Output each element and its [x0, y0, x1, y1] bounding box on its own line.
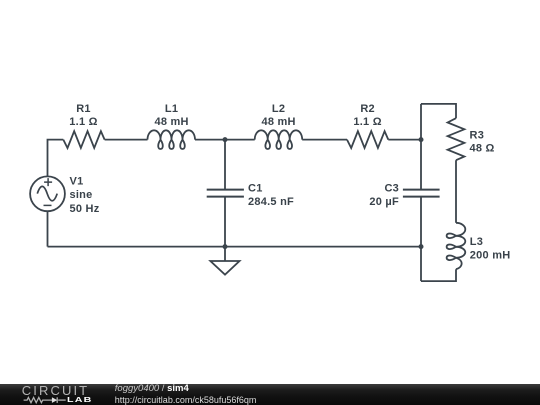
resistor R1: [63, 131, 104, 148]
wire R1 to L1: [105, 139, 148, 141]
node B junction dot: [419, 137, 424, 142]
wire C1 to bottom rail: [224, 197, 226, 247]
wire L1 to L2 through node A: [195, 139, 255, 141]
voltage source V1: [30, 176, 65, 211]
label R2: [353, 103, 381, 128]
bottom rail wire: [48, 246, 422, 248]
label V1: [70, 176, 100, 215]
label L2: [261, 103, 295, 128]
wire V1 top to R1: [48, 140, 64, 177]
label L3: [470, 236, 511, 261]
wire right rail top (node B up to C3): [420, 104, 422, 190]
logo LAB text: [67, 397, 93, 404]
footer bar: [0, 384, 540, 405]
logo CIRCUIT text: [22, 386, 89, 396]
resistor R2: [347, 131, 388, 148]
inductor L3: [447, 223, 466, 269]
wire node A to C1: [224, 140, 226, 190]
wire R3 to L3: [455, 160, 457, 223]
wire C3 to right rail bottom: [420, 197, 422, 282]
inductor L2: [255, 130, 303, 149]
node D junction dot: [419, 244, 424, 249]
wire R2 to node B: [388, 139, 421, 141]
capacitor C3: [403, 190, 440, 197]
wire V1 bottom to bottom rail: [47, 211, 49, 247]
ground: [210, 247, 239, 275]
node A junction dot: [223, 137, 228, 142]
footer url line: [115, 395, 257, 405]
node C junction dot: [223, 244, 228, 249]
resistor R3: [448, 118, 465, 160]
inductor L1: [148, 130, 196, 149]
wire L3 to bottom link: [421, 269, 456, 281]
label R1: [69, 103, 97, 128]
footer title line: [115, 383, 189, 394]
capacitor C1: [207, 190, 244, 197]
label R3: [470, 129, 495, 154]
label L1: [154, 103, 188, 128]
wire L2 to R2: [302, 139, 347, 141]
label C1: [248, 182, 294, 207]
wire top link to R3 branch: [421, 104, 456, 118]
label C3: [369, 182, 399, 207]
